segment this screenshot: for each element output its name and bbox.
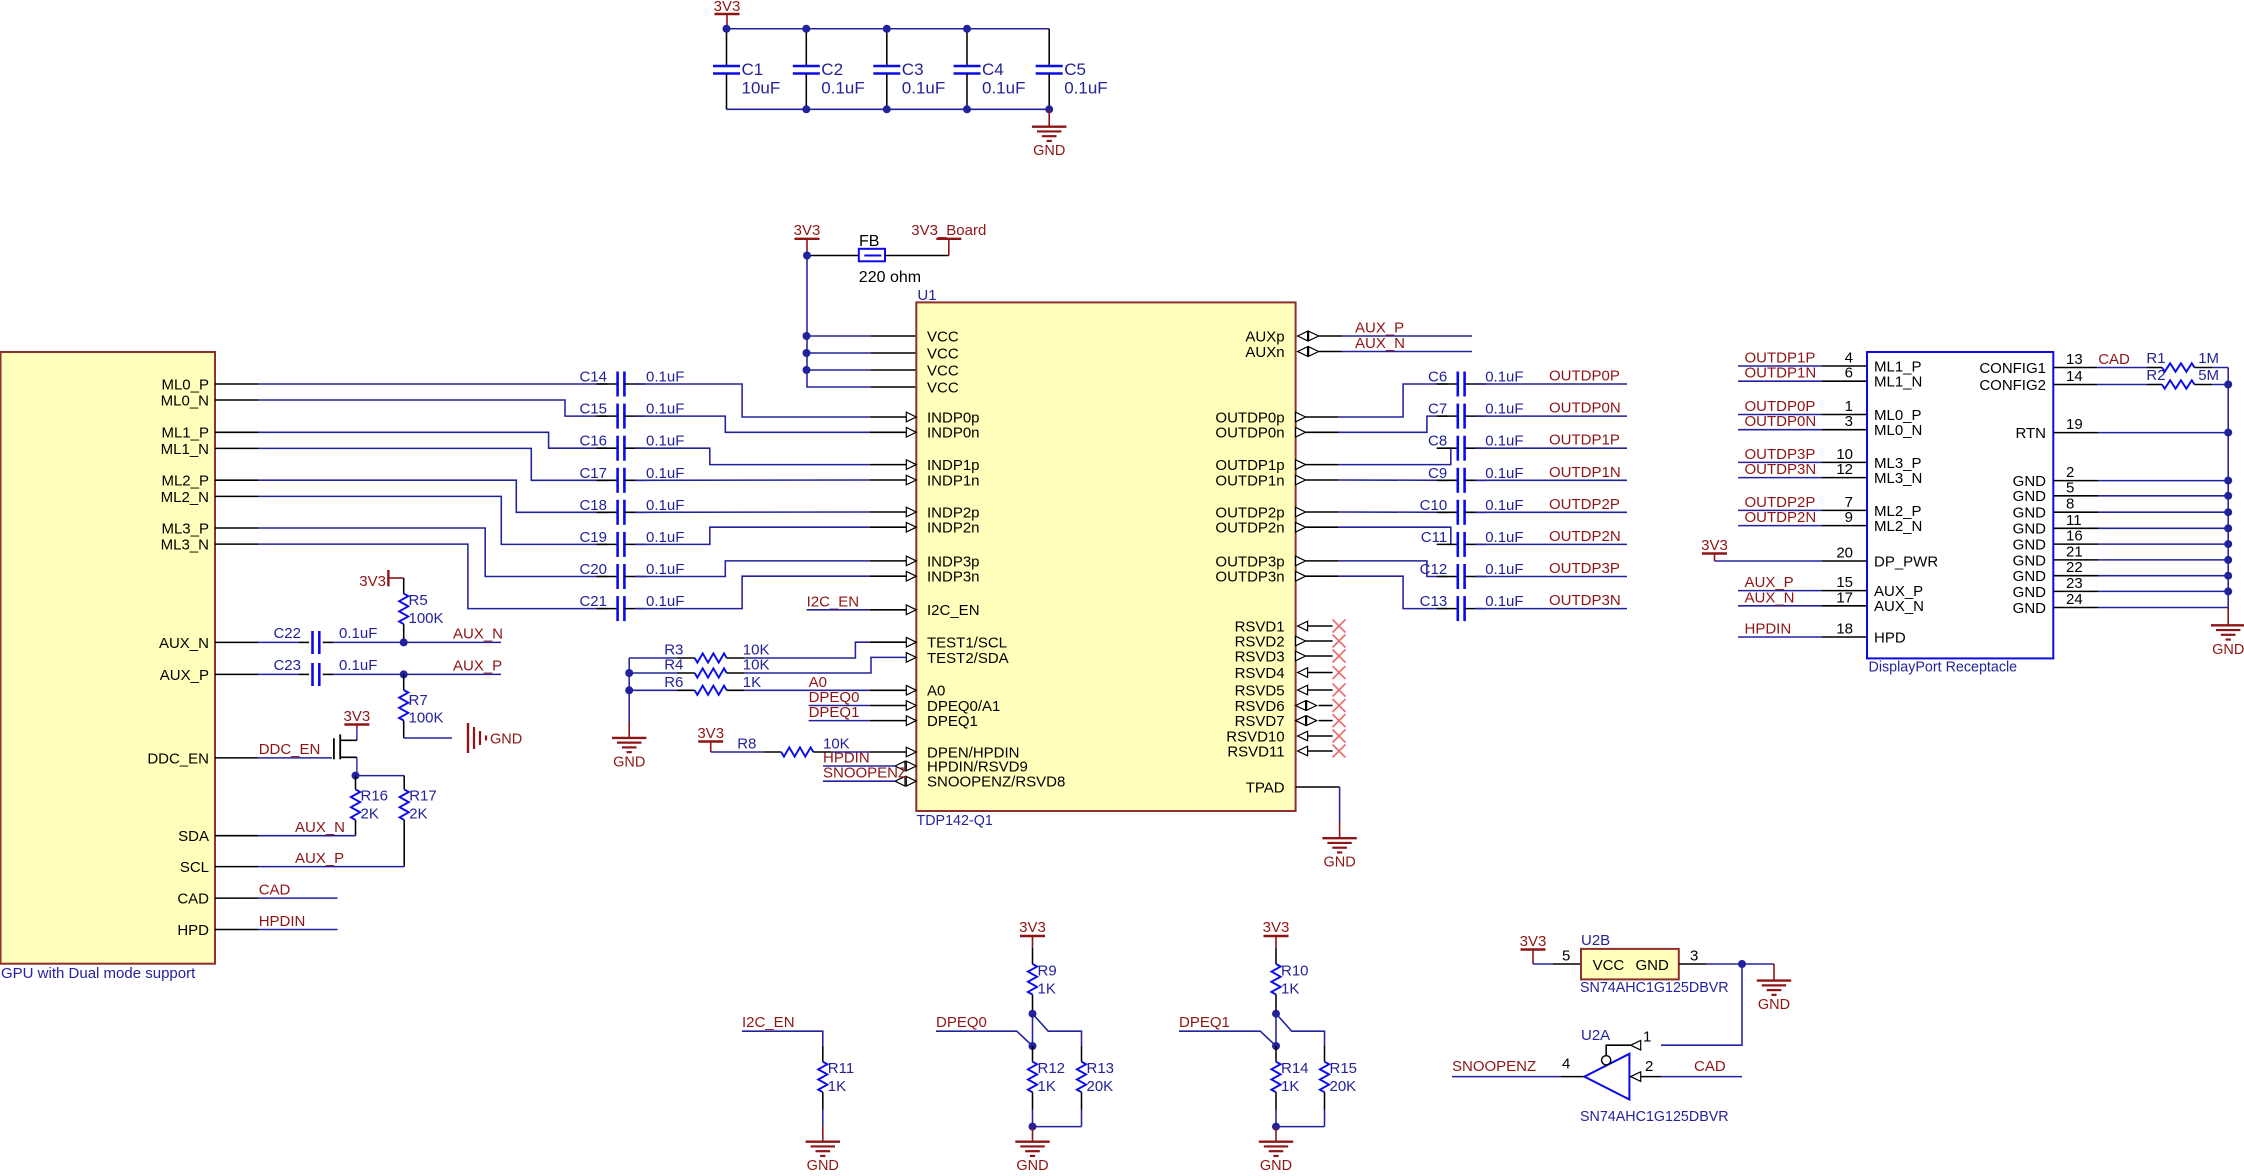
svg-text:220: 220: [859, 269, 886, 286]
capacitor C1: [713, 29, 780, 110]
svg-text:C15: C15: [579, 401, 607, 418]
wire RSVD10 no-connect: [1308, 735, 1333, 737]
resistor R5 100K: [399, 578, 443, 642]
ground (receptacle rail): [2211, 608, 2244, 658]
wire DPEQ0 entry: [936, 1031, 1033, 1046]
junction dot FET source node: [352, 772, 360, 780]
ground (DPEQ0 divider): [1015, 1127, 1049, 1175]
svg-text:R1: R1: [2146, 350, 2165, 367]
ferrite bead FB: [807, 233, 921, 286]
svg-text:OUTDP3N: OUTDP3N: [1745, 461, 1817, 478]
resistor R10 1K: [1271, 948, 1308, 1014]
resistor R9 1K: [1028, 948, 1057, 1014]
svg-text:OUTDP0N: OUTDP0N: [1745, 413, 1817, 430]
no-connect X RSVD5: [1333, 684, 1346, 697]
svg-text:3V3: 3V3: [359, 573, 386, 590]
svg-text:100K: 100K: [409, 610, 444, 627]
svg-text:C6: C6: [1428, 369, 1447, 386]
wire R8 to DPEN/HPDIN: [831, 751, 869, 753]
svg-text:1K: 1K: [743, 674, 761, 691]
svg-text:R4: R4: [664, 657, 683, 674]
svg-text:AUX_P: AUX_P: [295, 850, 344, 867]
capacitor C10: [1420, 497, 1524, 525]
wire RSVD4 no-connect: [1308, 672, 1333, 674]
GPU pin stubs: [215, 384, 258, 930]
receptacle pin 3 ML0_N: [1738, 413, 1922, 439]
svg-text:C11: C11: [1421, 529, 1447, 546]
svg-text:INDP3n: INDP3n: [927, 569, 980, 586]
svg-text:C9: C9: [1428, 465, 1447, 482]
wire C13 to net label: [1475, 608, 1627, 610]
svg-text:ML0_P: ML0_P: [161, 376, 209, 393]
wire RSVD2 no-connect: [1306, 640, 1333, 642]
resistor R2 5M: [2146, 367, 2228, 389]
resistor R3 10K: [629, 642, 769, 663]
svg-text:ohm: ohm: [890, 269, 921, 286]
capacitor C18: [579, 497, 684, 525]
svg-text:22: 22: [2066, 559, 2083, 576]
svg-text:ML0_N: ML0_N: [1874, 422, 1922, 439]
svg-text:3: 3: [1690, 948, 1698, 965]
wire ML1_N to C17: [258, 448, 607, 480]
svg-text:ML1_N: ML1_N: [161, 441, 209, 458]
wire R6 to A0: [745, 689, 870, 691]
svg-text:ML1_P: ML1_P: [161, 425, 209, 442]
svg-text:OUTDP1n: OUTDP1n: [1215, 472, 1284, 489]
svg-text:GND: GND: [1016, 1158, 1048, 1171]
no-connect X RSVD1: [1333, 620, 1346, 633]
wire AUXp to AUX_P label: [1319, 335, 1342, 337]
wire HPDIN stub: [258, 929, 338, 931]
svg-text:1K: 1K: [1281, 1078, 1299, 1095]
svg-text:INDP2n: INDP2n: [927, 520, 980, 537]
svg-text:12: 12: [1836, 461, 1853, 478]
wire to R17: [356, 775, 405, 777]
junction dot R12 bottom: [1029, 1123, 1037, 1131]
wire C17 to INDP pin: [635, 479, 870, 481]
wire top rail: [727, 28, 1050, 30]
svg-text:TPAD: TPAD: [1246, 779, 1285, 796]
svg-text:OUTDP1N: OUTDP1N: [1549, 464, 1621, 481]
svg-text:0.1uF: 0.1uF: [1485, 465, 1523, 482]
svg-text:VCC: VCC: [927, 345, 959, 362]
receptacle pin 10 ML3_P: [1738, 446, 1922, 472]
svg-text:GND: GND: [2013, 600, 2047, 617]
svg-text:OUTDP1N: OUTDP1N: [1745, 365, 1817, 382]
power 3V3_Board: [911, 222, 986, 256]
transistor Q1 DDC_EN pass FET: [334, 728, 357, 776]
svg-text:CAD: CAD: [259, 882, 291, 899]
svg-text:OUTDP2P: OUTDP2P: [1549, 496, 1620, 513]
buffer U2B SN74AHC1G125DBVR power pins: [1562, 932, 1729, 996]
svg-text:GPU with Dual mode support: GPU with Dual mode support: [1, 965, 196, 982]
wire VCC feed vertical: [806, 256, 809, 388]
wire 3V3 to U2B pin 5: [1533, 963, 1553, 965]
svg-text:0.1uF: 0.1uF: [646, 433, 684, 450]
svg-text:24: 24: [2066, 591, 2083, 608]
svg-text:3V3: 3V3: [1520, 933, 1547, 950]
svg-text:0.1uF: 0.1uF: [646, 529, 684, 546]
svg-text:C16: C16: [579, 433, 607, 450]
svg-text:ML0_N: ML0_N: [161, 392, 209, 409]
svg-text:GND: GND: [2013, 488, 2047, 505]
svg-text:U2B: U2B: [1581, 932, 1610, 949]
svg-text:C13: C13: [1420, 593, 1448, 610]
junction dot AUX_N/R5: [400, 638, 408, 646]
svg-text:0.1uF: 0.1uF: [1485, 593, 1523, 610]
svg-text:0.1uF: 0.1uF: [646, 593, 684, 610]
svg-text:C21: C21: [579, 593, 607, 610]
svg-text:0.1uF: 0.1uF: [646, 401, 684, 418]
svg-text:AUX_N: AUX_N: [1745, 589, 1795, 606]
capacitor C12: [1420, 561, 1524, 589]
svg-text:20K: 20K: [1087, 1078, 1114, 1095]
svg-text:GND: GND: [2013, 505, 2047, 522]
wire GND collection rail: [2227, 368, 2229, 608]
U2A pin 1 OE stub: [1606, 1029, 1651, 1056]
wire I2C_EN to U1: [807, 609, 870, 611]
svg-text:OUTDP3n: OUTDP3n: [1215, 569, 1284, 586]
svg-text:4: 4: [1562, 1056, 1570, 1073]
svg-text:VCC: VCC: [927, 328, 959, 345]
svg-text:GND: GND: [2013, 521, 2047, 538]
receptacle pin 17 AUX_N: [1738, 589, 1924, 615]
resistor R14 1K: [1271, 1046, 1308, 1127]
svg-text:VCC: VCC: [927, 379, 959, 396]
svg-text:SN74AHC1G125DBVR: SN74AHC1G125DBVR: [1580, 1109, 1729, 1125]
receptacle pin 5 GND: [2013, 479, 2229, 505]
svg-text:OUTDP2N: OUTDP2N: [1549, 528, 1621, 545]
wire TPAD to ground: [1296, 786, 1340, 788]
wire C12 to net label: [1475, 576, 1627, 578]
wire C9 to net label: [1475, 479, 1627, 481]
svg-text:DisplayPort Receptacle: DisplayPort Receptacle: [1869, 659, 2018, 675]
wire DDC_EN from GPU: [258, 757, 332, 759]
svg-text:C12: C12: [1420, 561, 1448, 578]
no-connect X RSVD7: [1333, 714, 1346, 727]
svg-text:SNOOPENZ: SNOOPENZ: [823, 765, 907, 782]
wire CAD net (U2A in): [1661, 1076, 1742, 1078]
wire DPEQ0 to U1: [809, 705, 870, 707]
svg-text:0.1uF: 0.1uF: [982, 79, 1025, 98]
svg-text:SNOOPENZ: SNOOPENZ: [1452, 1058, 1536, 1075]
wire SNOOPENZ (U2A out): [1452, 1076, 1561, 1078]
junction dots top rail: [723, 25, 731, 33]
svg-text:R16: R16: [361, 788, 389, 805]
svg-text:C20: C20: [579, 561, 607, 578]
svg-text:ML2_N: ML2_N: [1874, 518, 1922, 535]
svg-text:RSVD11: RSVD11: [1227, 743, 1284, 760]
wire RSVD5 no-connect: [1308, 689, 1333, 691]
wire C11 to net label: [1475, 543, 1627, 545]
ground (DPEQ1 divider): [1259, 1127, 1293, 1175]
svg-text:0.1uF: 0.1uF: [339, 625, 377, 642]
no-connect X RSVD6: [1333, 699, 1346, 712]
svg-text:SCL: SCL: [180, 859, 209, 876]
wire SCL to R17: [258, 866, 404, 868]
svg-text:CAD: CAD: [177, 891, 209, 908]
svg-text:C10: C10: [1420, 497, 1448, 514]
wire AUX_N from GPU: [258, 641, 299, 643]
GPU pin names: [147, 376, 209, 939]
svg-text:0.1uF: 0.1uF: [821, 79, 864, 98]
receptacle pin 11 GND: [2013, 512, 2229, 538]
receptacle pin 24 GND: [2013, 591, 2229, 617]
svg-text:19: 19: [2066, 416, 2083, 433]
svg-text:R13: R13: [1087, 1060, 1115, 1077]
svg-text:OUTDP1P: OUTDP1P: [1549, 432, 1620, 449]
svg-text:18: 18: [1836, 621, 1853, 638]
wire C22 to AUX_N label: [333, 641, 501, 643]
capacitor C16: [579, 433, 684, 461]
svg-text:0.1uF: 0.1uF: [902, 79, 945, 98]
wire C21 to INDP pin: [635, 576, 870, 608]
svg-text:SDA: SDA: [178, 828, 209, 845]
wire SNOOPENZ to U1: [823, 780, 895, 782]
svg-text:GND: GND: [807, 1158, 839, 1171]
receptacle pin 18 HPD: [1738, 621, 1906, 647]
svg-text:AUX_N: AUX_N: [1874, 598, 1924, 615]
power 3V3 (R5 pullup, side facing): [359, 570, 403, 590]
svg-text:1: 1: [1643, 1029, 1651, 1046]
svg-text:5: 5: [1562, 948, 1570, 965]
svg-text:U2A: U2A: [1581, 1027, 1610, 1044]
svg-text:2: 2: [1645, 1058, 1653, 1075]
U1 right pin names: [1215, 328, 1284, 796]
junction dot U2B gnd node: [1738, 960, 1746, 968]
svg-text:0.1uF: 0.1uF: [646, 369, 684, 386]
svg-text:1K: 1K: [1281, 981, 1299, 998]
svg-text:3V3: 3V3: [1263, 919, 1290, 936]
capacitor C4: [954, 29, 1026, 110]
svg-text:RSVD3: RSVD3: [1235, 648, 1285, 665]
svg-text:R12: R12: [1038, 1060, 1066, 1077]
svg-text:OUTDP0N: OUTDP0N: [1549, 400, 1621, 417]
wire OUTDP pin to C13: [1306, 575, 1338, 577]
capacitor C6: [1428, 369, 1524, 397]
svg-text:R11: R11: [828, 1060, 854, 1077]
junction dot R10 bottom: [1272, 1010, 1280, 1018]
resistor R12 1K: [1028, 1046, 1065, 1127]
wire C18 to INDP pin: [635, 511, 870, 513]
svg-text:0.1uF: 0.1uF: [1064, 79, 1107, 98]
svg-text:R7: R7: [409, 692, 428, 709]
resistor R7 100K: [399, 674, 443, 738]
svg-text:2K: 2K: [361, 806, 379, 823]
svg-text:R14: R14: [1281, 1060, 1309, 1077]
svg-text:DPEQ1: DPEQ1: [927, 713, 978, 730]
ground (U2B): [1757, 964, 1791, 1013]
capacitor C9: [1428, 465, 1524, 493]
capacitor C17: [579, 465, 684, 493]
no-connect X RSVD2: [1333, 635, 1346, 648]
svg-text:C4: C4: [982, 60, 1004, 79]
receptacle pin 6 ML1_N: [1738, 365, 1922, 391]
svg-text:R10: R10: [1281, 963, 1309, 980]
wire AUX_P from GPU: [258, 673, 299, 675]
svg-text:DDC_EN: DDC_EN: [259, 741, 321, 758]
wire SDA to R16: [258, 835, 356, 837]
capacitor C5: [1036, 29, 1108, 110]
U1 left pin names: [927, 328, 1065, 790]
svg-text:10uF: 10uF: [742, 79, 781, 98]
svg-text:ML3_N: ML3_N: [161, 537, 209, 554]
wire OUTDP pin to C9: [1306, 479, 1338, 481]
wire bottom rail: [727, 108, 1050, 110]
svg-text:ML2_P: ML2_P: [161, 473, 209, 490]
svg-text:0.1uF: 0.1uF: [1485, 401, 1523, 418]
svg-text:R15: R15: [1330, 1060, 1358, 1077]
wire C10 to net label: [1475, 511, 1627, 513]
svg-text:2K: 2K: [409, 806, 427, 823]
junction dots VCC taps: [803, 332, 811, 340]
svg-text:DPEQ0: DPEQ0: [936, 1014, 987, 1031]
svg-text:3: 3: [1845, 413, 1853, 430]
capacitor C7: [1428, 401, 1524, 429]
svg-text:GND: GND: [2013, 568, 2047, 585]
svg-text:OUTDP0P: OUTDP0P: [1549, 368, 1620, 385]
wire OUTDP pin to C7: [1306, 431, 1338, 433]
resistor R16 2K: [351, 776, 388, 836]
svg-text:0.1uF: 0.1uF: [1485, 561, 1523, 578]
wire OUTDP pin to C8: [1306, 464, 1338, 466]
svg-text:3V3_Board: 3V3_Board: [911, 222, 986, 239]
wire RSVD1 no-connect: [1308, 625, 1333, 627]
svg-text:C2: C2: [821, 60, 843, 79]
U1 left pin arrows: [895, 412, 916, 786]
ground (top rail): [1032, 109, 1066, 159]
svg-text:0.1uF: 0.1uF: [1485, 497, 1523, 514]
svg-text:0.1uF: 0.1uF: [1485, 369, 1523, 386]
svg-text:GND: GND: [2013, 584, 2047, 601]
svg-text:GND: GND: [1033, 143, 1065, 159]
svg-text:HPD: HPD: [177, 922, 209, 939]
svg-text:1K: 1K: [1038, 1078, 1056, 1095]
svg-text:DDC_EN: DDC_EN: [147, 750, 209, 767]
GPU block (GPU with Dual mode support): [1, 352, 216, 982]
capacitor C13: [1420, 593, 1524, 621]
svg-text:3V3: 3V3: [1019, 919, 1046, 936]
wire C23 to AUX_P label: [333, 673, 501, 675]
wire ML0_N to C15: [258, 400, 607, 416]
svg-text:CAD: CAD: [1694, 1058, 1726, 1075]
resistor R4 10K: [629, 657, 769, 678]
svg-text:DPEQ1: DPEQ1: [1179, 1014, 1230, 1031]
svg-text:3V3: 3V3: [344, 708, 371, 725]
svg-text:R9: R9: [1038, 963, 1057, 980]
receptacle pin 4 ML1_P: [1738, 350, 1922, 376]
buffer U2A SN74AHC1G125DBVR: [1580, 1027, 1729, 1125]
ground (TPAD): [1322, 822, 1356, 871]
wire CAD stub: [258, 897, 338, 899]
svg-text:ML2_N: ML2_N: [161, 489, 209, 506]
no-connect X RSVD10: [1333, 730, 1346, 743]
wire RSVD6 no-connect: [1319, 705, 1333, 707]
svg-text:GND: GND: [1635, 957, 1669, 974]
svg-text:R6: R6: [664, 674, 683, 691]
wire HPDIN to U1: [823, 765, 895, 767]
receptacle pin 7 ML2_P: [1738, 494, 1922, 520]
svg-text:GND: GND: [1323, 855, 1355, 871]
wire C6 to net label: [1475, 383, 1627, 385]
receptacle pin 1 ML0_P: [1738, 398, 1922, 424]
svg-text:100K: 100K: [409, 710, 444, 727]
wire centre vertical: [1032, 1014, 1034, 1046]
svg-text:GND: GND: [2013, 537, 2047, 554]
svg-text:OUTDP3N: OUTDP3N: [1549, 592, 1621, 609]
svg-text:SN74AHC1G125DBVR: SN74AHC1G125DBVR: [1580, 980, 1729, 996]
svg-text:10K: 10K: [743, 657, 770, 674]
wire VCC taps: [807, 335, 872, 337]
svg-text:0.1uF: 0.1uF: [1485, 529, 1523, 546]
wire DPEQ1 entry: [1179, 1031, 1276, 1046]
svg-text:9: 9: [1845, 509, 1853, 526]
svg-text:0.1uF: 0.1uF: [646, 465, 684, 482]
wire RSVD11 no-connect: [1308, 750, 1333, 752]
svg-text:20: 20: [1836, 545, 1853, 562]
svg-text:3V3: 3V3: [1701, 537, 1728, 554]
capacitor C3: [873, 29, 945, 110]
wire R10 to R15 branch: [1276, 1014, 1325, 1046]
wire RSVD7 no-connect: [1319, 720, 1333, 722]
wire FB to 3V3_Board: [885, 255, 949, 257]
wire I2C_EN to R11: [742, 1031, 823, 1046]
junction dot bus R6: [625, 686, 633, 694]
wire C7 to net label: [1475, 415, 1627, 417]
receptacle pin 23 GND: [2013, 575, 2229, 601]
svg-text:DPEQ1: DPEQ1: [809, 704, 860, 721]
svg-text:DP_PWR: DP_PWR: [1874, 553, 1938, 570]
receptacle pin 20 DP_PWR: [1715, 545, 1939, 571]
capacitor C21: [579, 593, 684, 621]
capacitor C19: [579, 529, 684, 557]
svg-text:GND: GND: [1260, 1158, 1292, 1171]
svg-text:0.1uF: 0.1uF: [646, 561, 684, 578]
capacitor C8: [1428, 433, 1524, 461]
svg-text:OUTDP2n: OUTDP2n: [1215, 520, 1284, 537]
svg-text:GND: GND: [613, 754, 645, 770]
wire ML2_P to C18: [258, 480, 607, 512]
ground (R7, side facing): [467, 723, 469, 753]
receptacle pin 15 AUX_P: [1738, 574, 1923, 600]
svg-text:3V3: 3V3: [697, 725, 724, 742]
svg-text:0.1uF: 0.1uF: [1485, 433, 1523, 450]
svg-text:0.1uF: 0.1uF: [646, 497, 684, 514]
wire node down to U2A pin 1: [1661, 964, 1742, 1045]
capacitor C23: [273, 657, 377, 686]
svg-text:C8: C8: [1428, 433, 1447, 450]
svg-text:VCC: VCC: [1593, 957, 1625, 974]
ground (R11): [806, 1126, 840, 1174]
resistor R8 10K: [711, 735, 850, 756]
svg-text:RSVD5: RSVD5: [1235, 682, 1285, 699]
svg-text:0.1uF: 0.1uF: [339, 657, 377, 674]
wire OUTDP pin to C11: [1306, 526, 1338, 528]
svg-text:AUX_P: AUX_P: [1355, 320, 1404, 337]
wire ML2_N to C19: [258, 496, 607, 544]
junction dot R14 top: [1272, 1042, 1280, 1050]
svg-text:TDP142-Q1: TDP142-Q1: [917, 813, 993, 829]
svg-text:RTN: RTN: [2015, 425, 2046, 442]
wire C15 to INDP pin: [635, 416, 870, 432]
junction dot R14 bottom: [1272, 1123, 1280, 1131]
svg-text:R17: R17: [409, 788, 437, 805]
junction dot AUX_P/R7: [400, 670, 408, 678]
receptacle pin 14 CONFIG2: [1979, 368, 2147, 394]
svg-text:HPD: HPD: [1874, 629, 1906, 646]
svg-text:17: 17: [1836, 589, 1853, 606]
wire OUTDP pin to C10: [1306, 511, 1338, 513]
